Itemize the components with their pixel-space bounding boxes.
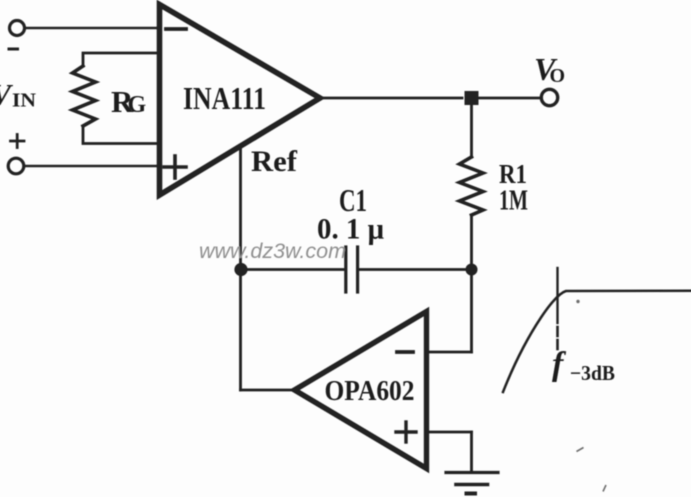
svg-text:INA111: INA111 bbox=[183, 80, 266, 116]
svg-text:www.dz3w.com: www.dz3w.com bbox=[199, 240, 346, 263]
svg-text:G: G bbox=[128, 92, 147, 118]
svg-text:1M: 1M bbox=[499, 186, 528, 217]
svg-text:R1: R1 bbox=[499, 159, 527, 189]
svg-text:OPA602: OPA602 bbox=[325, 375, 415, 407]
svg-text:Ref: Ref bbox=[251, 145, 298, 178]
svg-text:−3dB: −3dB bbox=[570, 361, 615, 385]
svg-text:IN: IN bbox=[12, 90, 37, 112]
svg-text:O: O bbox=[550, 65, 566, 87]
